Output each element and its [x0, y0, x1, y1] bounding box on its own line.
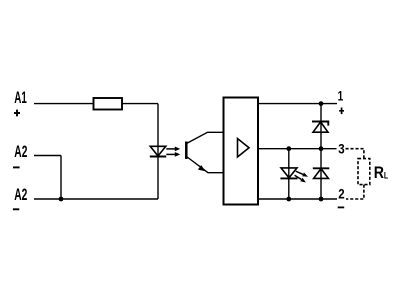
polarity + for A1	[14, 110, 20, 117]
svg-text:L: L	[384, 171, 388, 182]
amplifier triangle symbol	[238, 139, 250, 158]
svg-text:R: R	[374, 163, 384, 182]
wire A2 middle vertical drop	[60, 156, 62, 200]
svg-text:2: 2	[338, 187, 344, 203]
opto light arrow lower	[166, 153, 176, 155]
node dot bottom wire / LED branch	[286, 197, 291, 202]
phototransistor emitter lead	[187, 157, 224, 173]
wire zener branch vertical	[320, 104, 322, 149]
wire output middle (to terminal 3)	[258, 148, 337, 150]
node dot middle wire / diode branch	[319, 146, 324, 151]
polarity - for A2 middle	[13, 166, 20, 168]
node dot middle wire / LED branch	[286, 146, 291, 151]
node junction A2 wires	[59, 197, 64, 202]
wire output top (to terminal 1)	[258, 103, 337, 105]
svg-text:1: 1	[338, 88, 344, 104]
node dot top wire / zener	[319, 101, 324, 106]
amplifier block U1	[224, 98, 259, 205]
svg-text:A1: A1	[14, 89, 27, 107]
polarity + for terminal 1	[339, 108, 344, 115]
svg-text:A2: A2	[14, 186, 27, 204]
resistor R (input series)	[94, 98, 123, 110]
zener diode Z1 triangle (up)	[313, 122, 328, 132]
wire output bottom (to terminal 2)	[258, 198, 337, 200]
load resistor RL (dashed)	[358, 159, 370, 185]
wire input vertical x158	[157, 104, 159, 199]
freewheeling diode D3 triangle (up)	[314, 169, 329, 179]
node dot bottom wire / diode branch	[319, 197, 324, 202]
phototransistor collector lead	[187, 132, 224, 143]
polarity - for A2 bottom	[13, 208, 19, 210]
wire diode branch vertical	[320, 149, 322, 199]
status LED D2 cathode bar	[280, 177, 297, 179]
wire A1 horizontal	[34, 103, 158, 105]
opto light arrow upper	[166, 148, 176, 150]
dashed wire from terminal 3 to load	[346, 149, 364, 159]
status LED emission arrow lower	[295, 175, 302, 179]
optocoupler LED cathode bar	[150, 156, 166, 158]
optocoupler LED D1 (triangle down)	[150, 146, 166, 156]
status LED D2 triangle (down)	[281, 168, 297, 178]
polarity - for terminal 2	[338, 206, 345, 208]
wire status LED branch vertical	[288, 149, 290, 199]
freewheeling diode D3 cathode bar	[313, 167, 330, 169]
phototransistor Q1 base bar	[185, 142, 188, 160]
wire A2 bottom horizontal	[34, 198, 158, 200]
svg-text:3: 3	[338, 142, 344, 158]
status LED emission arrow upper	[296, 171, 303, 174]
zener diode Z1 cathode bar with hook	[312, 122, 328, 126]
svg-text:A2: A2	[14, 143, 27, 161]
phototransistor emitter arrowhead	[198, 165, 206, 171]
wire A2 middle horizontal	[34, 155, 61, 157]
dashed wire from load to terminal 2	[346, 185, 364, 199]
